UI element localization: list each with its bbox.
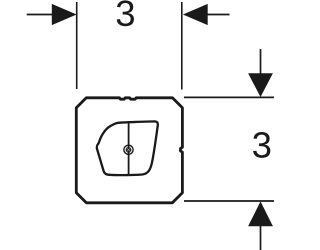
dimension label 3 (top width): [117, 0, 134, 26]
dimension line right segment (top): [207, 14, 230, 16]
extension line left (top): [76, 2, 78, 89]
screw head inner disc: [126, 147, 132, 153]
dimension line upper segment (right): [260, 49, 262, 75]
center axis line: [128, 122, 130, 175]
arrowhead up-pointing (right-bottom): [248, 201, 273, 226]
extension line bottom (right): [184, 200, 274, 202]
arrowhead down-pointing (right-top): [248, 73, 273, 97]
screw slot cross: [127, 148, 130, 151]
arrowhead left-pointing (top-right): [183, 4, 208, 25]
extension line right (top): [181, 2, 183, 90]
arrowhead right-pointing (top-left): [52, 4, 77, 25]
screw head outer ring: [124, 145, 133, 154]
extension line top (right): [184, 96, 274, 98]
dimension label 3 (right height): [253, 132, 270, 158]
dimension line lower segment (right): [260, 225, 262, 250]
dimension line left segment (top): [27, 14, 53, 16]
inner flush knob outline: [97, 121, 158, 175]
actuator plate outline (chamfered square with top notches and right tab): [76, 98, 182, 203]
